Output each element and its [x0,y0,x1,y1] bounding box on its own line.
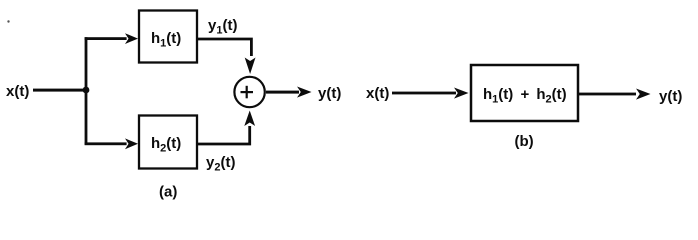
svg-text:y1(t): y1(t) [208,17,237,37]
wire h2 output to adder [197,126,250,144]
svg-text:x(t): x(t) [6,83,29,100]
block h1(t) [139,11,197,63]
scan speck [7,20,9,22]
wire x(t) to block (b) [392,92,456,95]
wire bottom branch to h2 [85,142,127,145]
wire block to y(t) (b) [578,93,636,96]
wire top branch to h1 [85,37,127,40]
svg-text:(b): (b) [515,133,534,150]
svg-text:h2(t): h2(t) [151,135,181,155]
plus sign [241,91,254,93]
svg-text:x(t): x(t) [366,85,389,102]
svg-text:y(t): y(t) [659,88,682,105]
block h2(t) [139,116,197,169]
wire input x(t) to junction [33,89,87,92]
block h1(t)+h2(t) [471,65,578,121]
wire vertical branch [85,37,88,145]
wire adder to y(t) [266,91,299,94]
svg-text:h1(t): h1(t) [151,30,181,50]
op adder circle [234,77,264,107]
svg-text:(a): (a) [159,184,177,201]
svg-text:y(t): y(t) [318,85,341,102]
svg-text:y2(t): y2(t) [206,154,235,174]
wire h1 output to adder [197,39,251,56]
node junction dot [83,87,90,94]
